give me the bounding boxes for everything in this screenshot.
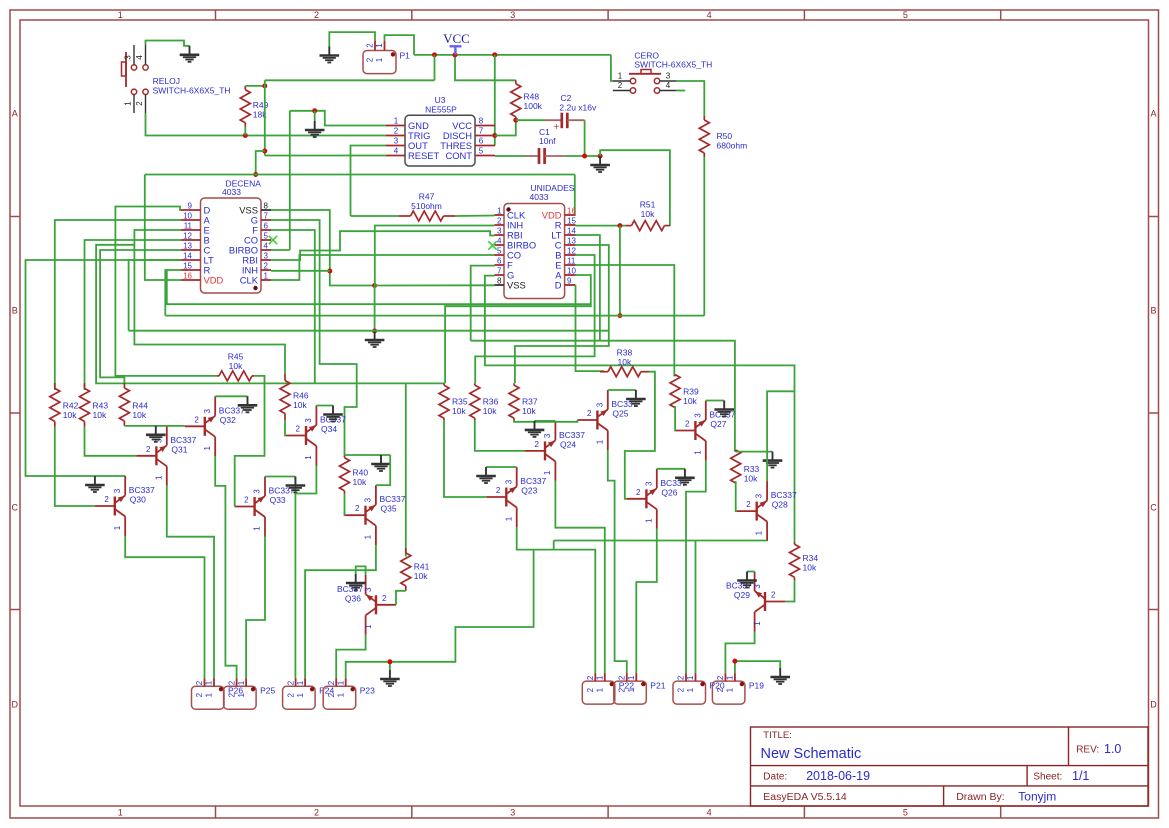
svg-text:C: C <box>1150 503 1157 513</box>
wire DECENA RBI to UNIDADES RBI <box>271 231 495 260</box>
wire U3 RESET line <box>265 155 386 157</box>
transistor Q33 BC337 <box>253 497 255 516</box>
svg-text:REV:: REV: <box>1076 744 1099 755</box>
resistor R41 10k <box>405 548 407 553</box>
svg-text:BC337: BC337 <box>129 485 155 495</box>
wire R43 bottom to Q31 base <box>85 427 137 456</box>
svg-text:8: 8 <box>264 202 269 211</box>
svg-text:2: 2 <box>366 43 375 48</box>
svg-text:10: 10 <box>183 212 192 221</box>
svg-text:R46: R46 <box>293 391 309 401</box>
wire P1 pin1 to VCC bus <box>385 35 415 55</box>
svg-text:1: 1 <box>394 117 399 126</box>
svg-text:Sheet:: Sheet: <box>1033 772 1062 783</box>
svg-text:5: 5 <box>479 147 484 156</box>
svg-text:2: 2 <box>771 591 776 600</box>
wire Q28 emitter down to P20 pin1 <box>695 541 697 674</box>
svg-text:2: 2 <box>586 687 595 692</box>
ground G21 right of P19 <box>779 668 781 677</box>
svg-text:12: 12 <box>567 247 576 256</box>
svg-text:4: 4 <box>707 10 712 20</box>
resistor R34 10k <box>794 542 796 545</box>
svg-text:10k: 10k <box>93 410 107 420</box>
DECENA pin 9 D <box>181 209 201 211</box>
wire Q29 collector to ground <box>747 571 755 573</box>
svg-text:2: 2 <box>497 217 502 226</box>
svg-text:A: A <box>12 109 18 119</box>
wire R33 bottom to Q28 base <box>736 481 737 511</box>
no-connect X at DECENA CO <box>269 236 277 244</box>
svg-text:A: A <box>1150 109 1156 119</box>
wire C1 right to ground junction <box>565 155 601 157</box>
svg-text:10k: 10k <box>452 406 466 416</box>
wire R40 bottom to Q35 base <box>345 494 346 516</box>
wire VSS line to UNIDADES VSS <box>375 284 495 286</box>
svg-text:EasyEDA V5.5.14: EasyEDA V5.5.14 <box>763 791 847 803</box>
wire RELOJ pin2 down to TRIG bus <box>146 113 387 136</box>
svg-text:1.0: 1.0 <box>1104 742 1121 756</box>
svg-text:14: 14 <box>183 252 192 261</box>
svg-text:1: 1 <box>154 475 163 480</box>
resistor R36 10k <box>474 383 476 385</box>
svg-text:3: 3 <box>510 10 515 20</box>
transistor Q36 BC337 mirrored <box>375 595 377 614</box>
svg-text:3: 3 <box>644 481 653 486</box>
transistor Q28 BC337 <box>756 502 758 521</box>
svg-text:BC337: BC337 <box>771 490 797 500</box>
wire DECENA pin11 E to R46 <box>134 230 285 374</box>
wire down to DECENA pin4 BIRBO <box>289 111 291 250</box>
ground G3 at C1 node <box>599 156 601 165</box>
svg-text:8: 8 <box>479 117 484 126</box>
svg-text:5: 5 <box>264 232 269 241</box>
U3 pin 1 GND <box>386 125 405 127</box>
wire DECENA R pin15 down to reset line <box>165 270 181 316</box>
UNIDADES pin 5 CO <box>495 254 505 256</box>
wire OUT line to R47 <box>351 215 400 217</box>
transistor Q35 BC337 <box>364 506 366 525</box>
svg-text:15: 15 <box>183 262 192 271</box>
DECENA pin 1 CLK <box>261 279 271 281</box>
ground G10 right of Q34 <box>332 406 334 415</box>
svg-text:1: 1 <box>264 272 269 281</box>
svg-text:BC337: BC337 <box>559 430 585 440</box>
wire R44 bottom to Q32 base <box>124 425 184 427</box>
svg-text:10k: 10k <box>483 406 497 416</box>
svg-text:1: 1 <box>205 692 214 697</box>
svg-text:1: 1 <box>686 687 695 692</box>
svg-text:12: 12 <box>183 232 192 241</box>
svg-text:3: 3 <box>394 137 399 146</box>
resistor R35 10k <box>443 383 445 385</box>
svg-text:R40: R40 <box>353 468 369 478</box>
wire Q28 collector up over to R34 line <box>767 391 794 481</box>
svg-text:C: C <box>12 503 19 513</box>
transistor Q29 BC337 mirrored <box>764 592 766 611</box>
svg-text:1: 1 <box>364 624 373 629</box>
DECENA pin 14 LT <box>181 259 201 261</box>
svg-text:6: 6 <box>264 222 269 231</box>
svg-text:2: 2 <box>618 81 623 90</box>
svg-text:R35: R35 <box>452 396 468 406</box>
wire jog RESET to VDD rail <box>256 151 265 175</box>
ground G19 above Q29 <box>746 572 748 581</box>
wire Q36 emitter to P23 pin2 <box>336 635 365 678</box>
wire R41 top drop <box>405 383 407 556</box>
svg-text:680ohm: 680ohm <box>717 141 748 151</box>
svg-text:2: 2 <box>636 488 641 497</box>
wire C2 right down to CONT line <box>584 120 586 156</box>
connector P22 <box>582 681 615 704</box>
U3 pin 3 OUT <box>386 145 405 147</box>
wire Q29 emitter to P19 pin2 <box>725 632 754 674</box>
connector P23 <box>323 686 356 709</box>
UNIDADES pin 14 LT <box>565 234 576 236</box>
svg-text:2: 2 <box>382 594 387 603</box>
wire DECENA LT down to gnd bus <box>129 260 181 331</box>
svg-text:2: 2 <box>327 692 336 697</box>
wire DECENA INH to VSS node <box>271 270 330 272</box>
svg-text:Q26: Q26 <box>661 487 677 497</box>
svg-text:Q27: Q27 <box>710 419 726 429</box>
svg-text:R37: R37 <box>522 396 538 406</box>
DECENA pin 6 F <box>261 229 271 231</box>
connector P1 <box>363 51 396 74</box>
wire Q35 emitter to P24 pin1 <box>305 545 376 678</box>
ground G7 on Q31 collector node <box>155 426 157 435</box>
svg-text:510ohm: 510ohm <box>411 201 442 211</box>
svg-text:3: 3 <box>666 72 671 81</box>
svg-text:4: 4 <box>394 147 399 156</box>
wire stub CERO pin4 <box>677 90 686 92</box>
svg-text:1: 1 <box>618 72 623 81</box>
svg-text:2: 2 <box>677 687 686 692</box>
wire P23 pin1 to ground <box>346 662 390 678</box>
svg-text:1: 1 <box>644 518 653 523</box>
title block column dividers <box>1068 727 1070 766</box>
svg-text:3: 3 <box>755 493 764 498</box>
svg-text:3: 3 <box>364 587 373 592</box>
svg-text:1/1: 1/1 <box>1072 769 1089 783</box>
svg-text:RESET: RESET <box>408 150 440 161</box>
wire R35 bottom to Q23 base <box>444 420 486 497</box>
svg-text:2: 2 <box>355 504 360 513</box>
connector P26 <box>192 686 225 709</box>
svg-text:10nf: 10nf <box>539 136 556 146</box>
svg-text:7: 7 <box>264 212 269 221</box>
svg-text:BC337: BC337 <box>219 405 245 415</box>
DECENA pin1 marker <box>253 286 257 290</box>
wire P19 pin1 to ground <box>735 661 780 673</box>
svg-text:1: 1 <box>205 680 214 685</box>
svg-text:BC337: BC337 <box>170 435 196 445</box>
svg-text:2: 2 <box>677 675 686 680</box>
wire Q28 emitter line <box>554 540 767 542</box>
svg-text:1: 1 <box>364 534 373 539</box>
wire Q33 emitter to P25 pin1 <box>246 537 265 679</box>
svg-text:1: 1 <box>686 675 695 680</box>
transistor Q25 BC337 <box>596 411 598 430</box>
no-connect X at UNIDADES BIRBO <box>488 241 496 249</box>
svg-text:10k: 10k <box>803 562 817 572</box>
UNIDADES pin 15 R <box>565 224 576 226</box>
svg-text:R45: R45 <box>228 352 244 362</box>
svg-text:VCC: VCC <box>443 31 470 46</box>
svg-text:4: 4 <box>264 242 269 251</box>
wire Q25 collector to ground <box>608 389 636 391</box>
svg-text:10k: 10k <box>683 396 697 406</box>
wire branch down to ground net <box>390 550 534 662</box>
svg-text:C2: C2 <box>561 93 572 103</box>
svg-text:1: 1 <box>113 525 122 530</box>
title block row dividers <box>751 765 1149 767</box>
wire RELOJ pin4 to ground <box>146 41 190 46</box>
svg-text:R51: R51 <box>640 200 656 210</box>
transistor Q34 BC337 <box>305 426 307 445</box>
wire R34 bottom to Q29 base <box>785 580 795 602</box>
svg-text:3: 3 <box>253 489 262 494</box>
wire R49 top to VDD column <box>245 85 264 87</box>
wire Q34 collector to ground <box>316 405 333 407</box>
svg-text:2: 2 <box>227 680 236 685</box>
wire Q25 emitter to P21 pin2 <box>608 450 627 673</box>
svg-text:10k: 10k <box>522 406 536 416</box>
wire Q24 emitter to P22 pin1 <box>555 481 604 673</box>
svg-text:CLK: CLK <box>240 274 259 285</box>
ground G6 left of Q30 <box>94 476 96 485</box>
U3 pin 4 RESET <box>386 155 405 157</box>
svg-text:3: 3 <box>693 413 702 418</box>
wire DECENA pin14 LT far left to Q30 collector <box>26 260 182 476</box>
transistor Q26 BC337 <box>645 489 647 508</box>
ground G8 right of Q32 <box>247 396 249 405</box>
svg-text:2: 2 <box>394 127 399 136</box>
wire R41 bottom to Q36 base <box>396 591 406 605</box>
svg-text:Q36: Q36 <box>345 593 361 603</box>
svg-text:10k: 10k <box>353 477 367 487</box>
svg-text:SWITCH-6X6X5_TH: SWITCH-6X6X5_TH <box>153 85 231 95</box>
wire Q24 collector to ground <box>535 420 556 422</box>
U3 pin 2 TRIG <box>386 135 405 137</box>
ground G2 near P1 <box>328 47 330 56</box>
transistor Q23 BC337 <box>505 488 507 507</box>
ground G12 above Q36 <box>355 574 357 583</box>
svg-text:P23: P23 <box>360 685 375 695</box>
switch CERO SWITCH-6X6X5_TH <box>630 78 635 83</box>
svg-text:2: 2 <box>104 495 109 504</box>
ground G15 left of Q24 <box>534 421 536 430</box>
svg-text:4: 4 <box>497 237 502 246</box>
svg-text:2: 2 <box>587 409 592 418</box>
connector P21 <box>614 681 647 704</box>
svg-text:3: 3 <box>364 497 373 502</box>
svg-text:10k: 10k <box>293 400 307 410</box>
wire C1 node up over to R51 right <box>600 150 670 226</box>
wire bus y=340.7 over to R33 <box>471 341 735 452</box>
svg-text:10: 10 <box>567 267 576 276</box>
UNIDADES pin 16 VDD <box>565 214 576 216</box>
wire R47 to UNIDADES CLK <box>455 215 495 218</box>
svg-text:3: 3 <box>497 227 502 236</box>
wire Q30 emitter to P26 pin2 <box>125 536 204 678</box>
U3 pin 5 CONT <box>475 155 495 157</box>
frame column ticks bottom <box>215 806 217 818</box>
svg-text:2: 2 <box>146 445 151 454</box>
ground G13 at R33 top <box>772 452 774 461</box>
svg-text:P25: P25 <box>260 685 275 695</box>
svg-text:1: 1 <box>543 470 552 475</box>
svg-text:3: 3 <box>304 418 313 423</box>
UNIDADES pin 6 F <box>495 264 505 266</box>
svg-text:1: 1 <box>627 687 636 692</box>
resistor R48 100k <box>515 80 517 83</box>
UNIDADES pin 1 CLK <box>495 214 505 216</box>
svg-text:2: 2 <box>264 262 269 271</box>
svg-text:Date:: Date: <box>763 772 787 783</box>
svg-text:R34: R34 <box>803 553 819 563</box>
svg-text:15: 15 <box>567 217 576 226</box>
wire VCC bus drop to rail y=80 <box>434 55 436 80</box>
svg-text:1: 1 <box>375 43 384 48</box>
svg-text:P21: P21 <box>650 680 665 690</box>
resistor R45 10k <box>217 375 219 377</box>
svg-text:4033: 4033 <box>530 192 549 202</box>
wire R38 right to Q26 base <box>625 372 655 499</box>
svg-text:2: 2 <box>286 692 295 697</box>
svg-text:13: 13 <box>567 237 576 246</box>
svg-text:2: 2 <box>586 675 595 680</box>
wire Q27 emitter to P20 pin2 <box>686 461 706 674</box>
wire parallel branch line y=304 <box>167 270 591 304</box>
wire U3 pin1 GND to ground and DECENA RBI <box>290 111 386 126</box>
svg-text:1: 1 <box>237 692 246 697</box>
svg-text:1: 1 <box>304 455 313 460</box>
svg-text:10k: 10k <box>618 357 632 367</box>
svg-text:R44: R44 <box>132 401 148 411</box>
svg-text:100k: 100k <box>524 101 543 111</box>
wire R33 top ground jog <box>736 451 773 453</box>
wire Q32 collector to ground <box>215 395 247 397</box>
DECENA pin 11 E <box>181 229 201 231</box>
svg-text:2: 2 <box>227 692 236 697</box>
svg-text:P1: P1 <box>400 50 411 60</box>
wire UNIDADES CO to DECENA CLK <box>271 255 495 280</box>
capacitor C1 10nf <box>495 155 526 157</box>
wire Q35 collector up to R40 top node <box>376 455 390 485</box>
svg-text:1: 1 <box>693 450 702 455</box>
wire R37 bottom to Q25 base <box>514 420 577 422</box>
wire DISCH to R48 bottom <box>495 120 516 135</box>
ground G11 at R40 top <box>380 455 382 464</box>
resistor R38 10k <box>600 371 608 373</box>
svg-text:2: 2 <box>314 808 319 818</box>
svg-text:R39: R39 <box>683 386 699 396</box>
svg-text:R49: R49 <box>253 100 269 110</box>
DECENA pin 8 VSS <box>261 209 271 211</box>
wire R36 bottom to Q24 base <box>475 420 525 451</box>
wire VDD rail down to UNIDADES pin16 VDD <box>574 175 576 216</box>
svg-text:10k: 10k <box>63 410 77 420</box>
wire emitter line west drop <box>553 541 555 550</box>
svg-text:VSS: VSS <box>507 279 526 290</box>
svg-text:13: 13 <box>183 242 192 251</box>
svg-text:2018-06-19: 2018-06-19 <box>806 769 870 783</box>
wire Q32 emitter to P25 pin2 <box>215 456 236 678</box>
svg-text:2: 2 <box>535 440 540 449</box>
svg-text:10k: 10k <box>641 209 655 219</box>
svg-text:3: 3 <box>543 433 552 438</box>
svg-text:1: 1 <box>375 57 384 62</box>
svg-text:Q35: Q35 <box>381 504 397 514</box>
UNIDADES pin 11 E <box>565 264 576 266</box>
svg-text:5: 5 <box>903 808 908 818</box>
svg-text:1: 1 <box>118 10 123 20</box>
junction dot R49 bottom on TRIG bus <box>243 133 248 138</box>
wire UNIDADES C pin13 to R37 <box>515 245 609 383</box>
UNIDADES pin 4 BIRBO <box>495 244 505 246</box>
wire R46 bottom to Q34 base <box>285 420 286 436</box>
UNIDADES pin 3 RBI <box>495 234 505 236</box>
title block outline <box>751 727 1149 806</box>
svg-text:6: 6 <box>497 257 502 266</box>
svg-text:1: 1 <box>237 680 246 685</box>
svg-text:Q29: Q29 <box>734 590 750 600</box>
wire Q26 collector to ground <box>657 468 685 470</box>
wire UNIDADES R to R51 <box>576 225 627 227</box>
DECENA pin 15 R <box>181 269 201 271</box>
resistor R37 10k <box>513 383 515 385</box>
svg-text:2: 2 <box>314 10 319 20</box>
wire UNIDADES LT pin14 down <box>576 235 600 341</box>
wire UNIDADES G pin7 down to R34 <box>485 276 795 542</box>
DECENA pin 3 RBI <box>261 259 271 261</box>
wire VCC bus drop x=495 to U3 pins 8,7,6 <box>494 55 496 146</box>
op-amp U3 NE555P box <box>405 115 475 166</box>
UNIDADES pin 7 G <box>495 274 505 276</box>
svg-text:2: 2 <box>195 680 204 685</box>
svg-text:4: 4 <box>666 81 671 90</box>
svg-text:2: 2 <box>685 420 690 429</box>
svg-text:P19: P19 <box>749 680 764 690</box>
svg-text:R47: R47 <box>419 192 435 202</box>
svg-text:R41: R41 <box>414 561 430 571</box>
svg-text:New Schematic: New Schematic <box>761 746 862 762</box>
UNIDADES pin 10 A <box>565 274 576 276</box>
svg-text:10k: 10k <box>132 410 146 420</box>
svg-text:10k: 10k <box>229 361 243 371</box>
wire CERO pin3 to R50 <box>677 81 705 116</box>
svg-text:3: 3 <box>595 402 604 407</box>
svg-text:2: 2 <box>366 57 375 62</box>
svg-text:11: 11 <box>184 222 193 231</box>
wire UNIDADES INH down to VSS node <box>375 226 495 286</box>
svg-text:3: 3 <box>510 808 515 818</box>
DECENA pin 13 C <box>181 249 201 251</box>
svg-text:R33: R33 <box>744 464 760 474</box>
resistor R42 10k <box>54 383 56 388</box>
svg-text:6: 6 <box>479 137 484 146</box>
UNIDADES pin 8 VSS <box>495 284 505 286</box>
svg-text:2: 2 <box>286 680 295 685</box>
wire DECENA VSS to INH junction <box>271 210 375 286</box>
svg-text:R42: R42 <box>63 401 79 411</box>
wire VCC top bus <box>414 54 611 56</box>
svg-text:R38: R38 <box>617 347 633 357</box>
svg-text:10k: 10k <box>414 571 428 581</box>
ground G18 right of Q27 <box>723 401 725 410</box>
svg-text:Q23: Q23 <box>521 486 537 496</box>
svg-text:2: 2 <box>496 486 501 495</box>
